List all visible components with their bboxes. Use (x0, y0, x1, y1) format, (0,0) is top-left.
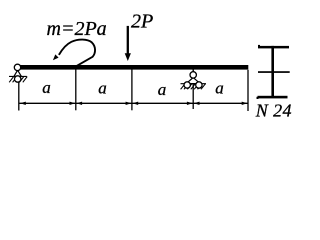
middle support: hinge circle (190, 72, 196, 78)
I-beam: bottom flange (258, 96, 288, 99)
left support: hinge circle at beam end (14, 64, 20, 70)
I-beam: middle line (neutral axis) (258, 71, 290, 73)
middle support: left roller (184, 82, 190, 88)
dim arrows at tick2 (70, 102, 76, 105)
dim arrow at tick1 (points left) (20, 102, 26, 105)
left support: stem / extension line tick1 (18, 80, 20, 111)
extension line tick3 (131, 70, 133, 111)
extension line right end (247, 70, 249, 111)
moment arrowhead (53, 54, 59, 60)
middle support: hatching (181, 84, 206, 90)
dim arrow at tick5 (points right) (242, 102, 248, 105)
I-beam: left top serif (258, 45, 260, 47)
I-beam: web (271, 46, 274, 97)
svg-text:2P: 2P (131, 10, 153, 32)
svg-text:m=2Pa: m=2Pa (47, 18, 107, 40)
beam (19, 65, 249, 70)
middle support: stem / extension line tick4 (192, 84, 194, 109)
svg-text:a: a (215, 79, 224, 98)
dim arrows at tick3 (126, 102, 132, 105)
left support: hatching (9, 77, 27, 83)
svg-text:a: a (158, 80, 167, 99)
left support: roller circle (15, 76, 21, 82)
I-beam: left bottom serif (257, 97, 259, 99)
middle support: triangle (186, 78, 200, 84)
left support: ground line (9, 75, 27, 77)
moment arc m (59, 40, 95, 67)
svg-text:a: a (98, 79, 107, 98)
left support: triangle (14, 70, 21, 76)
middle support: stem to beam (192, 69, 194, 72)
dim arrows at tick4 (187, 102, 193, 105)
svg-text:a: a (42, 78, 51, 97)
dimension line (19, 102, 248, 104)
middle support: ground line (181, 83, 207, 85)
I-beam cross-section: top flange (258, 46, 289, 49)
middle support: right roller (196, 82, 202, 88)
force 2P arrow (127, 26, 129, 55)
extension line tick2 (75, 70, 77, 111)
svg-text:N 24: N 24 (255, 101, 292, 121)
